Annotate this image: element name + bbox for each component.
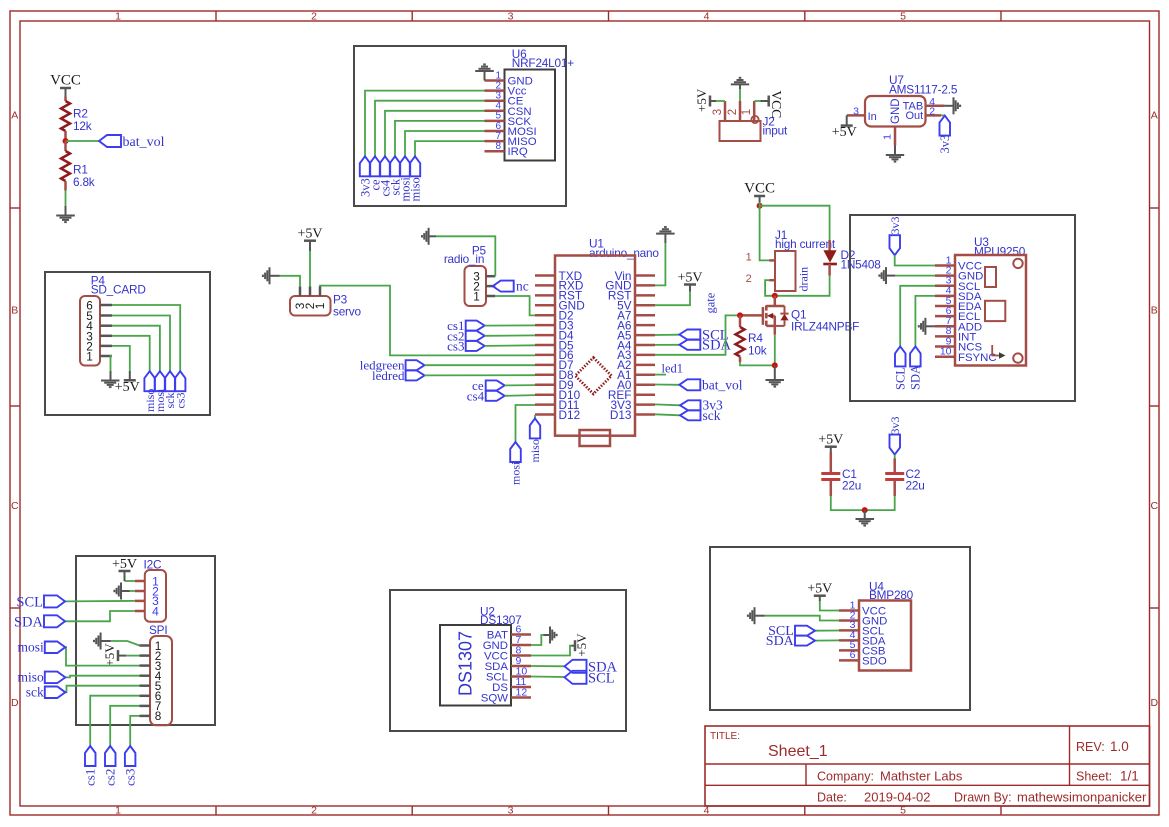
ground (U7) bbox=[886, 155, 904, 162]
wire J2 pin3 to +5V bbox=[716, 100, 725, 102]
svg-text:22u: 22u bbox=[842, 479, 861, 493]
label mosi (frame left) bbox=[45, 642, 66, 654]
wire J2 pin2 to ground bbox=[739, 89, 741, 101]
label SCL (U2) bbox=[565, 671, 587, 684]
label cs3 (SPI) bbox=[125, 746, 135, 766]
wire P4 pin2 to +5V bbox=[112, 346, 130, 371]
pin names U2 bbox=[481, 630, 509, 705]
wire SPI pin4 from miso label bbox=[65, 676, 139, 678]
ground (P4) bbox=[101, 381, 120, 388]
svg-text:SPI: SPI bbox=[149, 623, 167, 637]
label mosi (P4) bbox=[155, 371, 166, 391]
wire P3 pin2 to +5V bbox=[309, 251, 311, 286]
svg-text:8: 8 bbox=[495, 141, 501, 152]
pin numbers P4 bbox=[86, 299, 93, 364]
pins U1 left bbox=[535, 276, 555, 415]
pin J1 1 bbox=[769, 259, 775, 262]
svg-text:NRF24L01+: NRF24L01+ bbox=[512, 56, 574, 70]
wire U3 pin2 to ground bbox=[895, 275, 935, 277]
svg-text:+5V: +5V bbox=[102, 643, 117, 667]
label cs4 (U6) bbox=[380, 156, 390, 176]
wire D2 cathode to drain node bbox=[775, 276, 830, 296]
wires U6 pins to labels bbox=[365, 91, 485, 157]
wire C1 to ground junction bbox=[831, 496, 865, 510]
pin numbers U2 bbox=[516, 624, 528, 699]
svg-text:3: 3 bbox=[508, 804, 514, 816]
svg-text:1: 1 bbox=[313, 303, 327, 310]
svg-text:input: input bbox=[763, 124, 789, 138]
svg-text:drain: drain bbox=[797, 267, 811, 292]
transistor Q1 IRLZ44NPBF bbox=[774, 296, 777, 306]
ic U1 body bbox=[555, 256, 635, 436]
svg-text:5: 5 bbox=[900, 10, 906, 22]
svg-text:2: 2 bbox=[929, 106, 935, 118]
label 3v3 (U1 3V3) bbox=[655, 403, 680, 406]
wire SPI pin1 to ground (diagonal) bbox=[111, 641, 140, 646]
supply +5V rotated (U2) bbox=[574, 640, 577, 651]
ground above U1 bbox=[656, 227, 675, 234]
wires P4 pins 3-6 to labels bbox=[112, 305, 180, 371]
label SCL (U4) bbox=[795, 626, 815, 636]
ground (U3 ADD) bbox=[919, 318, 926, 335]
svg-text:mosi: mosi bbox=[18, 640, 45, 655]
U3 module graphics: axis arrow bbox=[992, 345, 1000, 356]
resistor R4 bbox=[739, 315, 742, 327]
svg-text:1: 1 bbox=[882, 134, 894, 140]
label bat_vol bbox=[99, 135, 121, 147]
label cs3 (U1 D5) bbox=[466, 341, 485, 351]
ic U7 body bbox=[865, 96, 926, 127]
svg-text:IRLZ44NPBF: IRLZ44NPBF bbox=[791, 320, 859, 334]
ground (C1 C2) bbox=[864, 510, 866, 519]
svg-text:Mathster Labs: Mathster Labs bbox=[880, 769, 963, 784]
svg-text:REV:: REV: bbox=[1076, 740, 1105, 754]
svg-text:2019-04-02: 2019-04-02 bbox=[864, 790, 931, 805]
svg-text:2: 2 bbox=[311, 804, 317, 816]
svg-text:3v3: 3v3 bbox=[888, 417, 902, 435]
module frame I2C/SPI bbox=[76, 556, 215, 725]
pins J2 (stubs up) bbox=[725, 101, 754, 121]
wire U1 D12 to miso label bbox=[534, 415, 536, 419]
svg-text:SDA: SDA bbox=[909, 365, 923, 390]
label SDA (U2) bbox=[565, 660, 587, 673]
svg-text:1: 1 bbox=[115, 10, 121, 22]
U1 usb connector symbol bbox=[580, 430, 611, 446]
wire P3 pin1 to U1 D6 bbox=[320, 286, 535, 356]
ic U3 body bbox=[955, 255, 1026, 366]
label 3v3 (U6) bbox=[360, 156, 370, 176]
wire U2 SDA to label bbox=[531, 665, 565, 667]
svg-text:VCC: VCC bbox=[769, 91, 784, 119]
svg-text:1N5408: 1N5408 bbox=[841, 258, 882, 272]
wire SPI pin5 from sck label bbox=[65, 686, 139, 693]
wire SPI pin3 from mosi label bbox=[65, 647, 139, 665]
resistor R2 bbox=[64, 97, 67, 102]
wire I2C pin2 to ground bbox=[130, 590, 135, 592]
svg-text:+5V: +5V bbox=[677, 270, 702, 285]
pin names U1 right bbox=[605, 269, 632, 422]
svg-text:mathewsimonpanicker: mathewsimonpanicker bbox=[1017, 790, 1147, 805]
label miso (P4) bbox=[144, 371, 155, 391]
svg-text:cs3: cs3 bbox=[447, 339, 464, 354]
svg-text:SCL: SCL bbox=[588, 670, 615, 686]
supply VCC rotated (J2) bbox=[767, 96, 770, 107]
svg-text:cs2: cs2 bbox=[103, 769, 118, 786]
module frame U3 bbox=[850, 215, 1075, 401]
svg-text:radio_in: radio_in bbox=[444, 252, 484, 266]
svg-text:2: 2 bbox=[746, 273, 752, 285]
label ledred (U1 D8) bbox=[406, 370, 425, 380]
svg-text:6: 6 bbox=[850, 649, 856, 661]
frame row ticks right bbox=[1150, 207, 1160, 209]
svg-text:ledred: ledred bbox=[372, 368, 405, 383]
svg-text:+5V: +5V bbox=[574, 633, 589, 657]
pin names U3 bbox=[958, 261, 997, 364]
frame column ticks top bbox=[215, 11, 217, 21]
wire J2 pin1 to VCC bbox=[754, 100, 760, 102]
pins U6 1-8 bbox=[485, 81, 505, 152]
pin numbers U6 bbox=[495, 70, 501, 152]
label ce (U1 D9) bbox=[486, 380, 505, 390]
wire I2C pin1 to +5V bbox=[125, 580, 135, 582]
label cs1 (SPI) bbox=[85, 746, 96, 766]
ground (U4) bbox=[748, 607, 755, 624]
wire U3 pin4 to SDA label bbox=[915, 296, 935, 347]
wire SPI pin8 to cs3 label bbox=[130, 716, 139, 746]
wire U2 VCC to +5V bbox=[531, 646, 572, 656]
U3 module graphics: circle bottom-right bbox=[1013, 353, 1022, 362]
wire U1 5V to +5V bbox=[655, 292, 690, 306]
svg-text:A: A bbox=[11, 110, 18, 122]
wire U1 A3 to gate net bbox=[655, 315, 740, 354]
ground (SPI pin1) bbox=[94, 633, 101, 650]
wire bat_vol bbox=[66, 140, 100, 142]
wire U3 pin3 to SCL label bbox=[900, 286, 935, 347]
label SCL (I2C) bbox=[44, 595, 65, 607]
wire SPI pin2 to +5V bbox=[126, 655, 139, 657]
supply +5V (I2C) bbox=[119, 570, 131, 573]
wire P5 pin3 to ground bbox=[436, 236, 495, 276]
supply +5V (C1) bbox=[825, 445, 837, 448]
wire U2 GND to ground bbox=[531, 635, 544, 645]
svg-text:SCL: SCL bbox=[893, 367, 907, 390]
svg-text:+5V: +5V bbox=[115, 380, 140, 395]
label SDA (U3) bbox=[910, 346, 921, 366]
connector SPI body bbox=[150, 636, 172, 725]
svg-text:4: 4 bbox=[152, 604, 159, 618]
pins P4 bbox=[100, 305, 112, 356]
label miso (U6) bbox=[410, 156, 420, 176]
pins U2 6-12 bbox=[511, 635, 531, 698]
pin U7 TAB (4) bbox=[926, 105, 945, 108]
svg-text:B: B bbox=[1151, 305, 1158, 317]
pins U3 1-10 bbox=[935, 266, 955, 357]
svg-text:Sheet_1: Sheet_1 bbox=[768, 743, 828, 760]
supply VCC (divider) bbox=[60, 87, 71, 90]
svg-text:SDA: SDA bbox=[766, 634, 795, 649]
svg-text:Out: Out bbox=[905, 110, 923, 122]
svg-text:2: 2 bbox=[311, 10, 317, 22]
svg-text:1: 1 bbox=[473, 289, 480, 303]
svg-text:12k: 12k bbox=[73, 119, 92, 133]
svg-text:SDA: SDA bbox=[14, 614, 44, 630]
pins P5 bbox=[486, 276, 495, 296]
svg-text:SD_CARD: SD_CARD bbox=[91, 283, 146, 297]
label cs1 (U1 D3) bbox=[466, 321, 485, 331]
svg-text:+5V: +5V bbox=[112, 557, 137, 572]
label cs4 (U1 D10) bbox=[486, 391, 505, 401]
connector P4 body bbox=[80, 296, 100, 366]
wire U4 SCL from label bbox=[815, 630, 839, 632]
label sck (U6) bbox=[390, 156, 400, 176]
label bat_vol (U1 A0) bbox=[655, 384, 679, 386]
svg-text:gate: gate bbox=[704, 292, 718, 313]
pin names U1 left bbox=[559, 269, 585, 422]
svg-text:Date:: Date: bbox=[817, 791, 847, 805]
ground (I2C) bbox=[114, 583, 121, 600]
pins U4 1-6 bbox=[839, 611, 859, 661]
svg-text:mosi: mosi bbox=[509, 461, 523, 485]
wire U4 SDA from label bbox=[815, 639, 839, 641]
wire VCC to J1 pin1 bbox=[760, 206, 770, 261]
label mosi (U1 D11) bbox=[510, 442, 521, 462]
svg-text:+5V: +5V bbox=[832, 125, 857, 140]
supply +5V (U4) bbox=[814, 594, 826, 597]
svg-text:FSYNC: FSYNC bbox=[958, 352, 997, 364]
pin1 marker circle J2 bbox=[751, 116, 758, 123]
svg-text:miso: miso bbox=[18, 670, 45, 685]
svg-text:servo: servo bbox=[333, 305, 361, 319]
wire R1 to ground bbox=[65, 191, 67, 207]
ic U2 body bbox=[440, 625, 511, 706]
pin U7 In (3) bbox=[847, 114, 865, 117]
svg-text:SCL: SCL bbox=[16, 594, 43, 610]
module frame U6 bbox=[354, 46, 566, 206]
ground (P5) bbox=[422, 228, 429, 245]
pins U1 right bbox=[635, 276, 655, 415]
node junction source/gnd bbox=[772, 362, 778, 368]
supply +5V rotated (SPI) bbox=[117, 650, 120, 661]
wire J1 pin2 to drain node bbox=[765, 280, 775, 296]
svg-text:sck: sck bbox=[26, 685, 44, 700]
connector P3 body bbox=[290, 296, 331, 316]
U1 mcu diamond symbol bbox=[575, 358, 611, 394]
module frame P4 bbox=[45, 272, 210, 415]
svg-text:C: C bbox=[1151, 500, 1159, 512]
label 3v3 (U7) bbox=[940, 116, 951, 136]
label SDA (U1 A4) bbox=[655, 344, 679, 346]
wire P3 pin3 to ground bbox=[280, 276, 300, 287]
svg-text:miso: miso bbox=[528, 439, 542, 462]
label mosi (U6) bbox=[400, 156, 410, 176]
title block dividers bbox=[705, 763, 1150, 765]
svg-text:10k: 10k bbox=[748, 344, 767, 358]
svg-text:Sheet:: Sheet: bbox=[1076, 770, 1112, 784]
svg-text:In: In bbox=[868, 111, 877, 123]
capacitor C1 22u bbox=[830, 452, 833, 474]
label SDA (I2C) bbox=[44, 615, 65, 627]
svg-text:6.8k: 6.8k bbox=[73, 175, 95, 189]
wire I2C pin4 to SDA label bbox=[65, 611, 135, 621]
svg-text:D: D bbox=[1151, 697, 1159, 709]
supply +5V rotated (J2) bbox=[709, 96, 712, 107]
svg-text:cs3: cs3 bbox=[173, 393, 187, 409]
connector P5 body bbox=[465, 266, 487, 306]
label cs2 (U1 D4) bbox=[466, 331, 485, 341]
svg-text:22u: 22u bbox=[906, 479, 925, 493]
label sck (P4) bbox=[165, 371, 175, 391]
supply +5V (P4) bbox=[124, 379, 136, 382]
svg-text:VCC: VCC bbox=[744, 181, 775, 197]
svg-text:Company:: Company: bbox=[817, 770, 874, 784]
pin names U6 bbox=[508, 76, 537, 159]
wire U4 VCC to +5V bbox=[820, 601, 839, 611]
wire U7 Out to 3v3 label bbox=[941, 114, 945, 116]
title block outline bbox=[705, 726, 1150, 806]
pins I2C bbox=[135, 581, 145, 611]
svg-text:MPU9250: MPU9250 bbox=[974, 245, 1026, 259]
module frame U2 bbox=[390, 590, 626, 731]
wire U1 GND(right) to ground bbox=[655, 243, 665, 285]
ground (Q1) bbox=[774, 365, 776, 380]
wire U2 SCL to label bbox=[531, 676, 565, 679]
svg-text:+5V: +5V bbox=[818, 433, 843, 448]
svg-text:led1: led1 bbox=[662, 362, 684, 376]
svg-text:+5V: +5V bbox=[297, 227, 322, 242]
svg-text:bat_vol: bat_vol bbox=[702, 378, 743, 393]
connector J2 body bbox=[720, 121, 761, 141]
svg-text:+5V: +5V bbox=[694, 88, 709, 112]
diode D2 1N5408 bbox=[828, 240, 831, 251]
node junction C1/C2 ground bbox=[862, 507, 868, 513]
node junction R2/R1/bat_vol bbox=[63, 138, 69, 144]
U3 module graphics: small rect bbox=[985, 267, 996, 287]
svg-text:Drawn By:: Drawn By: bbox=[954, 791, 1012, 805]
pin numbers SPI bbox=[155, 639, 162, 723]
connector J1 body bbox=[775, 251, 796, 291]
svg-text:high current: high current bbox=[775, 237, 836, 251]
wire C2 to ground junction bbox=[865, 496, 895, 510]
wire I2C pin3 to SCL label bbox=[65, 600, 135, 603]
label SCL (U1 A5) bbox=[655, 334, 679, 336]
svg-text:miso: miso bbox=[408, 177, 422, 201]
frame column ticks bottom bbox=[215, 806, 217, 815]
ground (P3) bbox=[263, 267, 270, 284]
svg-text:+5V: +5V bbox=[807, 582, 832, 597]
label ledgreen (U1 D7) bbox=[406, 360, 425, 370]
svg-text:IRQ: IRQ bbox=[508, 146, 528, 158]
pin numbers P5 bbox=[473, 270, 480, 304]
svg-text:cs1: cs1 bbox=[83, 769, 98, 786]
node junction VCC/J1/D2 bbox=[757, 203, 763, 209]
wire U3 pin7 to ground bbox=[925, 325, 935, 327]
label sck (U1 D13) bbox=[655, 414, 680, 415]
supply +5V (P3) bbox=[304, 239, 316, 242]
capacitor C2 22u bbox=[894, 455, 896, 459]
U3 module graphics: circle top-right bbox=[1013, 259, 1022, 268]
svg-text:1: 1 bbox=[115, 804, 121, 816]
svg-text:arduino_nano: arduino_nano bbox=[589, 246, 659, 260]
svg-text:4: 4 bbox=[704, 10, 710, 22]
svg-text:10: 10 bbox=[940, 346, 952, 358]
svg-text:8: 8 bbox=[155, 709, 162, 723]
connector I2C body bbox=[145, 570, 166, 622]
svg-text:cs4: cs4 bbox=[467, 388, 485, 403]
svg-text:bat_vol: bat_vol bbox=[123, 135, 165, 150]
svg-text:D12: D12 bbox=[559, 408, 581, 422]
label cs2 (SPI) bbox=[105, 746, 116, 766]
frame row ticks left bbox=[10, 207, 20, 209]
pin numbers I2C bbox=[152, 574, 159, 618]
svg-text:DS1307: DS1307 bbox=[456, 631, 476, 696]
svg-text:SQW: SQW bbox=[481, 693, 508, 705]
svg-text:sck: sck bbox=[703, 408, 721, 423]
svg-text:D13: D13 bbox=[610, 408, 632, 422]
U3 module graphics: big square bbox=[985, 301, 1005, 321]
svg-text:GND: GND bbox=[890, 98, 902, 124]
wire Q1 source to junction bbox=[774, 335, 776, 366]
wire P4 pin1 to ground bbox=[111, 356, 113, 371]
label ce (U6) bbox=[370, 156, 380, 176]
svg-text:SDO: SDO bbox=[862, 656, 887, 668]
svg-text:TITLE:: TITLE: bbox=[710, 731, 740, 742]
svg-text:1: 1 bbox=[86, 350, 93, 364]
svg-text:B: B bbox=[11, 305, 18, 317]
svg-text:A: A bbox=[1151, 110, 1158, 122]
svg-text:cs3: cs3 bbox=[123, 769, 138, 786]
wire U4 GND to ground bbox=[765, 616, 839, 621]
pin numbers J2 (rotated) bbox=[712, 109, 753, 115]
label led1 (U1 A1) bbox=[655, 374, 666, 376]
svg-text:3v3: 3v3 bbox=[888, 217, 902, 235]
label miso (frame left) bbox=[45, 672, 66, 684]
label SCL (U3) bbox=[895, 346, 906, 366]
svg-text:nc: nc bbox=[516, 279, 529, 294]
resistor R1 bbox=[64, 141, 67, 151]
pins SPI bbox=[139, 646, 150, 716]
label cs3 (P4) bbox=[175, 371, 186, 391]
wire SPI pin7 to cs2 label bbox=[110, 706, 139, 746]
ground (U7 TAB) bbox=[945, 105, 954, 107]
node junction gate/R4 bbox=[737, 312, 743, 318]
wire VCC to D2 anode bbox=[760, 206, 830, 240]
ic U4 body bbox=[859, 601, 911, 671]
label SDA (U4) bbox=[795, 636, 815, 646]
node junction drain bbox=[772, 293, 778, 299]
wire P5 pin1 to U1 D2 bbox=[495, 296, 535, 315]
ground (U2) bbox=[550, 627, 557, 644]
module frame U4 bbox=[710, 547, 970, 710]
svg-text:2: 2 bbox=[727, 109, 739, 115]
svg-text:1: 1 bbox=[741, 109, 753, 115]
svg-text:VCC: VCC bbox=[50, 73, 81, 89]
pins P3 bbox=[300, 286, 320, 296]
supply +5V (U7) bbox=[846, 115, 848, 125]
ground (divider) bbox=[56, 216, 75, 223]
pin names U4 bbox=[862, 606, 887, 668]
label sck (frame left) bbox=[45, 687, 66, 699]
svg-text:12: 12 bbox=[516, 687, 528, 699]
svg-text:1: 1 bbox=[746, 251, 752, 263]
svg-text:AMS1117-2.5: AMS1117-2.5 bbox=[889, 83, 958, 97]
ground (U3 GND) bbox=[879, 267, 886, 284]
wire SPI pin6 to cs1 label bbox=[90, 696, 139, 746]
pin numbers P3 (rotated) bbox=[293, 302, 327, 309]
pin J1 2 bbox=[770, 279, 776, 282]
wire U1 D11 to mosi label bbox=[516, 405, 536, 442]
svg-text:3: 3 bbox=[853, 106, 859, 118]
svg-text:1/1: 1/1 bbox=[1120, 769, 1139, 784]
